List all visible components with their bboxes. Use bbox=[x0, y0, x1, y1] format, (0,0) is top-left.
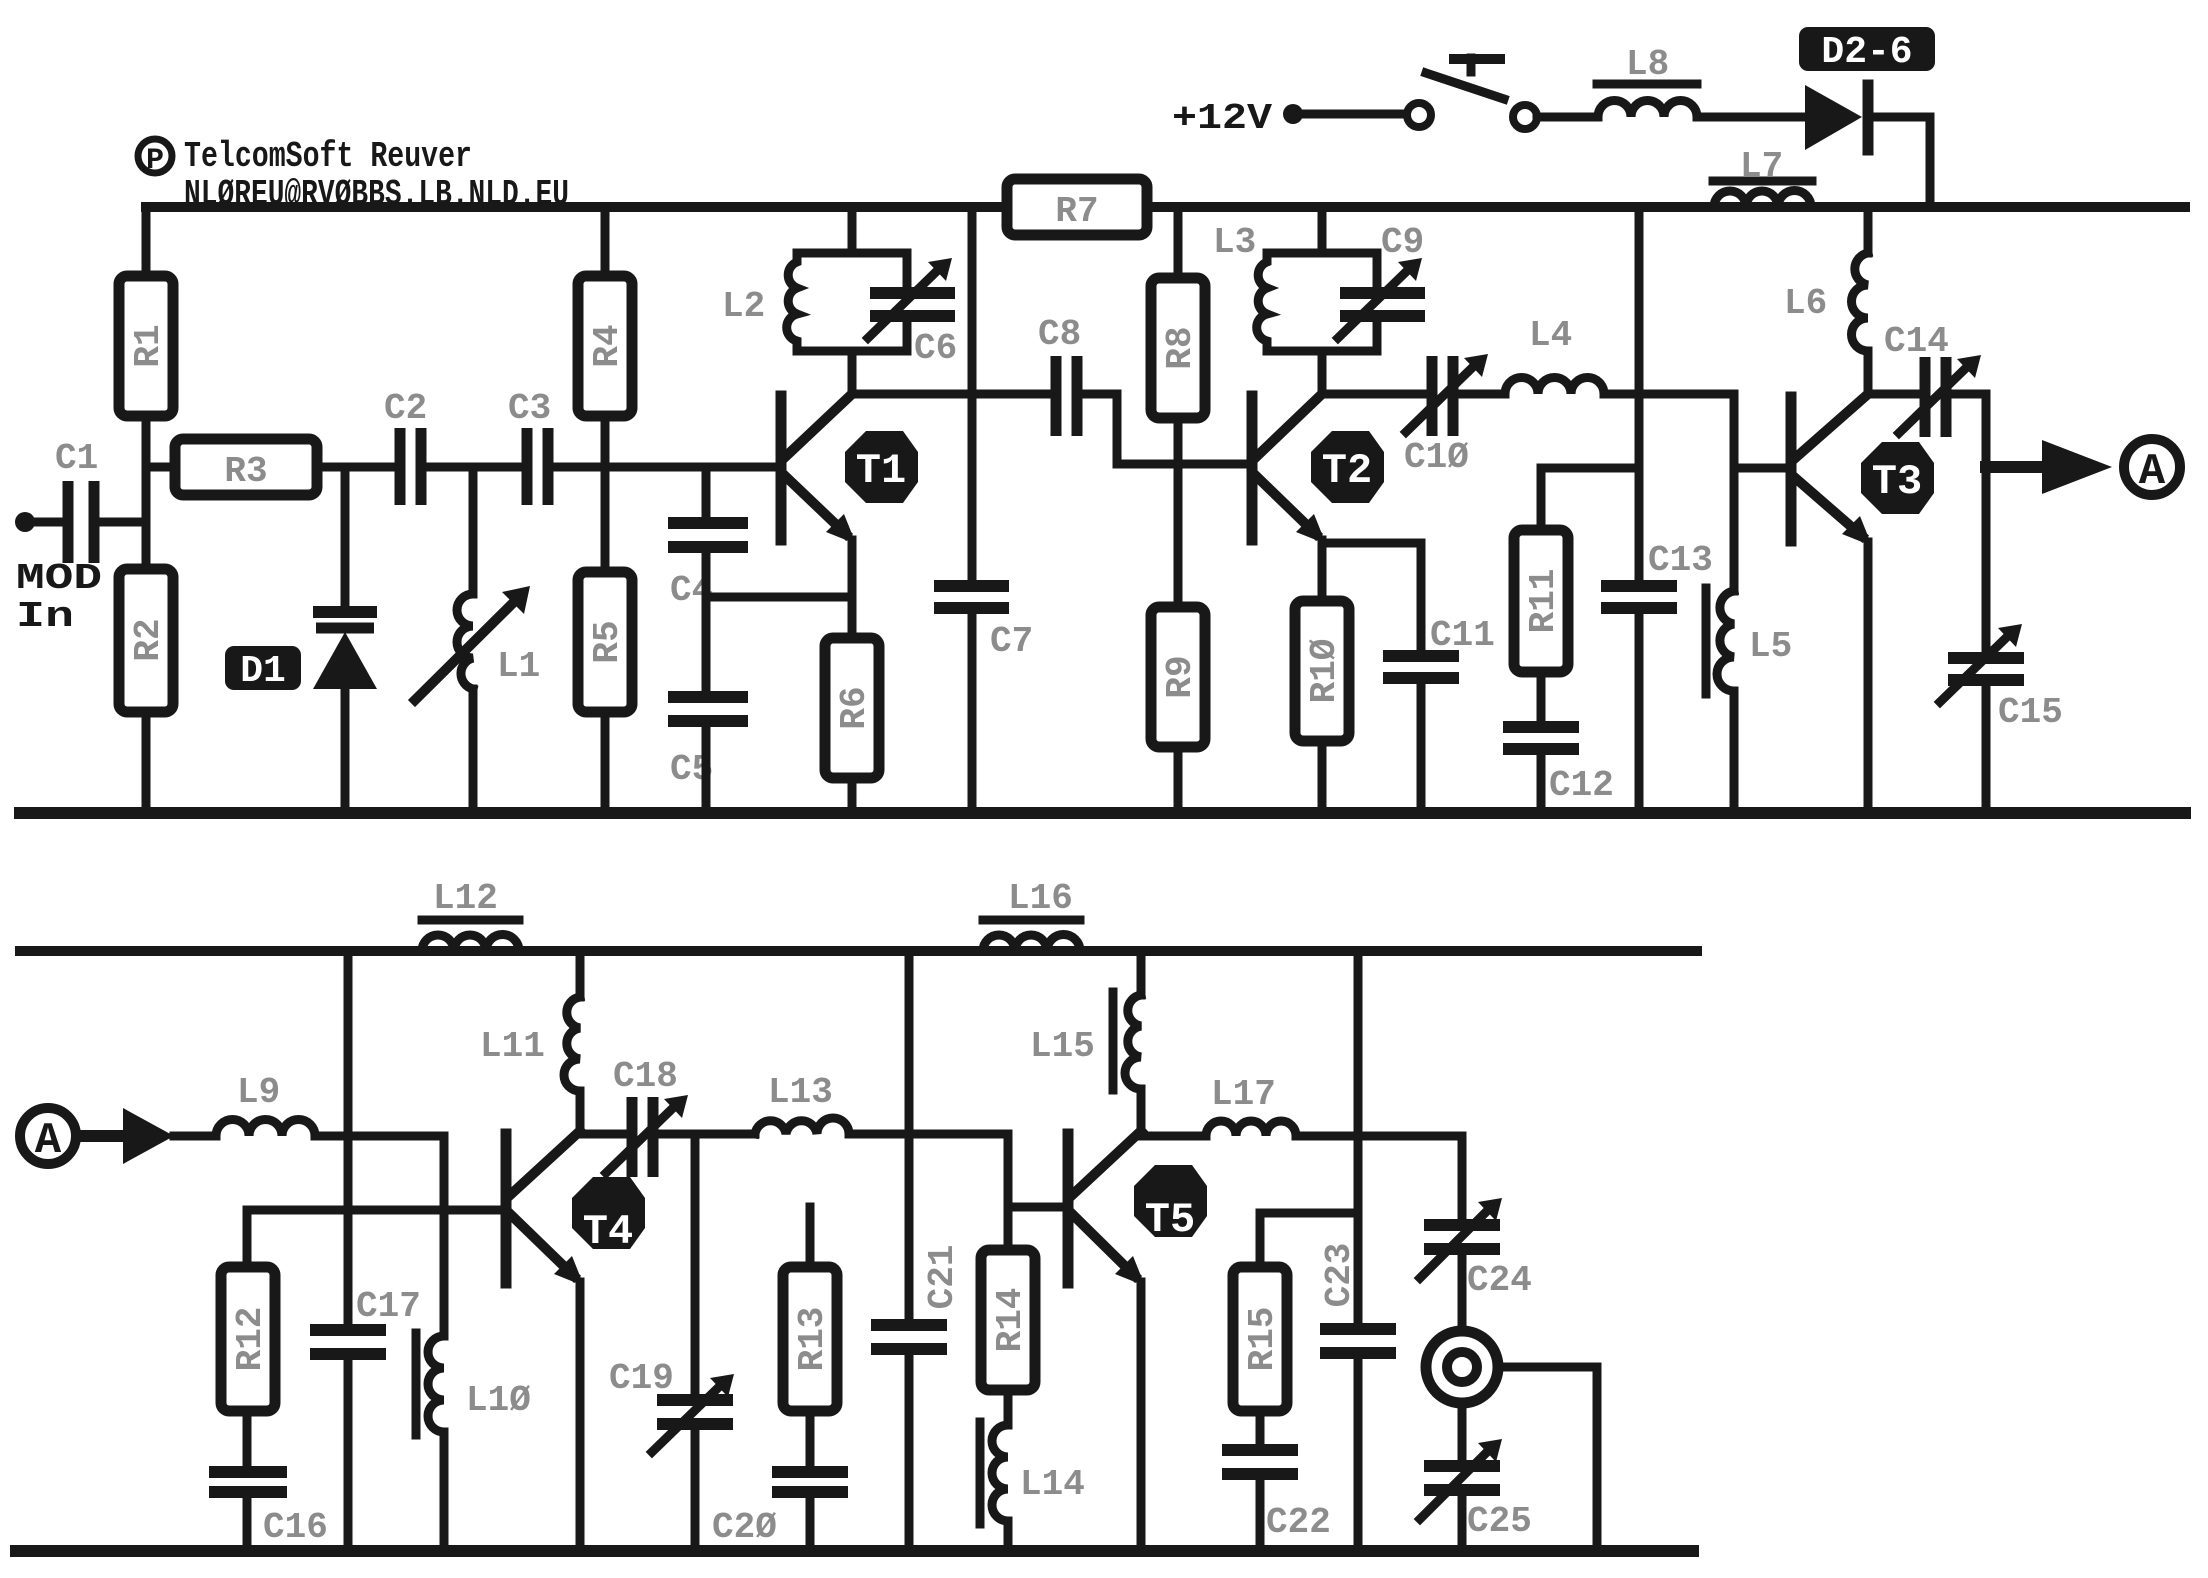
node MOD In terminal bbox=[15, 512, 60, 532]
svg-text:C3: C3 bbox=[508, 388, 551, 429]
resistor R1 bbox=[119, 276, 173, 416]
capacitor C5 bbox=[668, 697, 748, 790]
svg-text:L12: L12 bbox=[433, 878, 498, 919]
wire C13 to ground bbox=[1635, 614, 1644, 813]
capacitor C18 variable bbox=[606, 1056, 688, 1177]
wire C14 to output column bbox=[1952, 394, 1986, 652]
svg-text:L5: L5 bbox=[1749, 626, 1792, 667]
svg-text:R4: R4 bbox=[587, 324, 628, 367]
svg-text:L4: L4 bbox=[1529, 315, 1572, 356]
wire R14 to L14 bbox=[1004, 1390, 1013, 1425]
wire C1 to R2 column bbox=[100, 518, 146, 527]
inductor L10 bbox=[416, 1210, 531, 1551]
wire +12V supply rail left segment bbox=[146, 202, 1007, 212]
svg-text:C16: C16 bbox=[263, 1507, 328, 1548]
wire connector to C25 bbox=[1458, 1403, 1467, 1460]
wire T1 collector row bbox=[852, 390, 1051, 399]
wire L17 to C24 corner bbox=[1296, 1136, 1462, 1219]
inductor L17 bbox=[1206, 1074, 1296, 1136]
svg-text:D1: D1 bbox=[240, 650, 286, 693]
wire C25 to ground bbox=[1458, 1496, 1467, 1551]
wire C2 to C3 bbox=[427, 463, 522, 472]
wire C11 to ground bbox=[1417, 684, 1426, 813]
svg-text:R13: R13 bbox=[792, 1307, 833, 1372]
svg-text:D2-6: D2-6 bbox=[1821, 31, 1912, 74]
wire T5 emitter to ground bbox=[1137, 1282, 1146, 1551]
wire C24 to antenna connector bbox=[1458, 1255, 1467, 1330]
diode D1 varactor bbox=[313, 612, 377, 813]
capacitor C9 variable bbox=[1338, 222, 1425, 338]
capacitor C19 variable bbox=[609, 1358, 734, 1452]
wire R4 to R5 bbox=[601, 416, 610, 572]
svg-text:C22: C22 bbox=[1266, 1502, 1331, 1543]
capacitor C12 bbox=[1503, 727, 1614, 806]
transistor T1 bbox=[781, 394, 918, 544]
transistor T4 bbox=[506, 1131, 645, 1286]
supply rail bottom section bbox=[20, 946, 1697, 956]
inductor L6 bbox=[1784, 207, 1868, 394]
capacitor C21 bbox=[871, 1245, 963, 1349]
wire R6 to ground bbox=[848, 778, 857, 813]
wire C5 to ground bbox=[702, 727, 711, 813]
capacitor C4 bbox=[668, 523, 748, 611]
capacitor C1 bbox=[55, 438, 98, 563]
wire L9 to T4 branch corner bbox=[315, 1136, 444, 1210]
capacitor C25 variable bbox=[1420, 1439, 1532, 1542]
svg-text:C17: C17 bbox=[356, 1286, 421, 1327]
wire C22 to ground bbox=[1256, 1480, 1265, 1551]
svg-text:C23: C23 bbox=[1319, 1243, 1360, 1308]
svg-text:C2Ø: C2Ø bbox=[712, 1507, 777, 1548]
wire A to arrow bbox=[77, 1130, 123, 1142]
svg-text:R3: R3 bbox=[224, 451, 267, 492]
resistor R6 bbox=[825, 638, 879, 778]
wire C15 to ground bbox=[1982, 686, 1991, 813]
svg-text:L2: L2 bbox=[722, 286, 765, 327]
node +12V terminal bbox=[1283, 104, 1407, 124]
wire C21 column from rail bbox=[905, 951, 914, 1319]
inductor L13 bbox=[755, 1072, 849, 1134]
svg-text:+12V: +12V bbox=[1172, 98, 1272, 139]
resistor R7 bbox=[1007, 179, 1147, 235]
svg-text:L1: L1 bbox=[497, 646, 540, 687]
inductor L12 bbox=[422, 878, 519, 951]
wire C23 column from rail bbox=[1354, 951, 1363, 1323]
inductor L8 bbox=[1597, 44, 1697, 117]
header text TelcomSoft Reuver bbox=[184, 136, 569, 215]
wire C18 to L13 bbox=[659, 1130, 755, 1139]
wire tank L3 bottom tap bbox=[1318, 351, 1327, 394]
wire T3 collector row bbox=[1868, 390, 1920, 399]
inductor L9 bbox=[216, 1072, 315, 1136]
wire R11 top row bbox=[1541, 464, 1639, 473]
svg-text:A: A bbox=[35, 1116, 62, 1166]
wire C7 column top bbox=[968, 207, 977, 580]
transistor T5 bbox=[1068, 1131, 1207, 1286]
label D2-6 bbox=[1799, 27, 1935, 74]
wire C8 to T2 base bbox=[1083, 394, 1246, 464]
wire tank L2 top tap bbox=[848, 207, 857, 253]
wire C10 to L4 bbox=[1459, 390, 1505, 399]
wire tank L3 top tap bbox=[1318, 207, 1327, 253]
svg-text:C25: C25 bbox=[1467, 1501, 1532, 1542]
capacitor C16 bbox=[209, 1472, 328, 1548]
svg-text:T5: T5 bbox=[1145, 1196, 1195, 1244]
switch S1 pushbutton bbox=[1407, 58, 1537, 129]
svg-text:L9: L9 bbox=[237, 1072, 280, 1113]
svg-text:T1: T1 bbox=[856, 447, 906, 495]
svg-text:L8: L8 bbox=[1626, 44, 1669, 85]
svg-text:R1Ø: R1Ø bbox=[1304, 639, 1345, 704]
svg-text:T3: T3 bbox=[1872, 458, 1922, 506]
svg-text:C12: C12 bbox=[1549, 765, 1614, 806]
wire R15 top row bbox=[1260, 1209, 1358, 1218]
wire R1 bottom to R2 bbox=[142, 416, 151, 569]
svg-text:T4: T4 bbox=[583, 1208, 633, 1256]
wire tank L2 bottom tap bbox=[848, 351, 857, 394]
resistor R5 bbox=[578, 572, 632, 712]
capacitor C17 bbox=[310, 1286, 421, 1354]
wire C3 to T1 base bbox=[554, 463, 777, 472]
svg-text:C1: C1 bbox=[55, 438, 98, 479]
inductor L16 bbox=[983, 878, 1080, 951]
svg-text:C6: C6 bbox=[914, 328, 957, 369]
svg-text:L16: L16 bbox=[1008, 878, 1073, 919]
ground rail bottom section bbox=[16, 1545, 1693, 1557]
svg-text:R1: R1 bbox=[128, 324, 169, 367]
wire R1 top bbox=[142, 207, 151, 276]
svg-text:C19: C19 bbox=[609, 1358, 674, 1399]
resistor R15 bbox=[1233, 1213, 1287, 1411]
svg-text:TelcomSoft Reuver: TelcomSoft Reuver bbox=[184, 136, 472, 177]
inductor L4 bbox=[1505, 315, 1604, 394]
wire R5 to ground bbox=[601, 712, 610, 813]
wire C19 to ground bbox=[691, 1430, 700, 1551]
wire T5 base row bbox=[1008, 1203, 1065, 1212]
resistor R2 bbox=[119, 569, 173, 712]
svg-text:R6: R6 bbox=[834, 686, 875, 729]
wire L4 to T3 base corner bbox=[1604, 394, 1788, 468]
resistor R12 bbox=[221, 1210, 275, 1411]
node input arrow bbox=[123, 1108, 174, 1164]
capacitor C20 bbox=[712, 1472, 848, 1548]
svg-text:L1Ø: L1Ø bbox=[466, 1380, 531, 1421]
capacitor C22 bbox=[1222, 1450, 1331, 1543]
svg-text:L11: L11 bbox=[480, 1026, 545, 1067]
svg-text:L7: L7 bbox=[1740, 146, 1783, 187]
resistor R8 bbox=[1151, 278, 1205, 418]
wire C19 column bbox=[691, 1134, 700, 1394]
svg-text:C14: C14 bbox=[1884, 321, 1949, 362]
svg-text:C13: C13 bbox=[1648, 540, 1713, 581]
capacitor C6 variable bbox=[868, 258, 957, 369]
wire R2 to ground bbox=[142, 712, 151, 813]
svg-text:L17: L17 bbox=[1211, 1074, 1276, 1115]
wire center column rail to L4 node bbox=[1635, 207, 1644, 580]
label D1 bbox=[225, 646, 301, 693]
svg-text:C18: C18 bbox=[613, 1056, 678, 1097]
node A bottom section bbox=[20, 1108, 76, 1166]
capacitor C24 variable bbox=[1420, 1198, 1532, 1301]
capacitor C7 bbox=[934, 586, 1033, 662]
wire R9 to ground bbox=[1174, 747, 1183, 813]
inductor L11 bbox=[480, 951, 580, 1134]
svg-text:R11: R11 bbox=[1523, 569, 1564, 634]
wire C4C5 node to emitter column bbox=[706, 593, 852, 602]
wire R13 to C20 bbox=[806, 1411, 815, 1466]
svg-text:L14: L14 bbox=[1020, 1464, 1085, 1505]
svg-text:R15: R15 bbox=[1242, 1307, 1283, 1372]
wire L8 to D2-6 bbox=[1697, 113, 1805, 122]
wire T2 emitter to R10 bbox=[1318, 540, 1327, 601]
wire L13 to T5 branch corner bbox=[849, 1134, 1008, 1250]
wire C4 to C5 bbox=[702, 553, 711, 691]
wire D1 branch down bbox=[341, 467, 350, 606]
inductor L5 bbox=[1706, 468, 1792, 813]
svg-text:L3: L3 bbox=[1213, 222, 1256, 263]
capacitor C23 bbox=[1319, 1243, 1396, 1353]
wire +12V supply rail right segment bbox=[1147, 202, 2185, 212]
wire R8 top bbox=[1174, 207, 1183, 278]
wire T3 emitter to ground bbox=[1864, 542, 1873, 813]
wire T4 emitter to ground bbox=[576, 1282, 585, 1551]
diode D2-6 bbox=[1805, 85, 1868, 150]
svg-text:R2: R2 bbox=[128, 618, 169, 661]
resistor R9 bbox=[1151, 607, 1205, 747]
transistor T3 bbox=[1791, 394, 1934, 546]
capacitor C2 bbox=[384, 388, 427, 505]
resistor R4 bbox=[578, 276, 632, 416]
wire C4 branch top bbox=[702, 467, 711, 517]
wire arrow to L9 bbox=[174, 1132, 216, 1141]
wire switch to L8 bbox=[1537, 113, 1598, 122]
svg-text:R8: R8 bbox=[1160, 326, 1201, 369]
inductor L1 variable bbox=[415, 467, 540, 813]
svg-text:C15: C15 bbox=[1998, 692, 2063, 733]
svg-text:C1Ø: C1Ø bbox=[1404, 437, 1469, 478]
wire R4 top bbox=[601, 207, 610, 276]
wire C7 to ground bbox=[968, 614, 977, 813]
capacitor C13 bbox=[1601, 540, 1713, 608]
svg-text:C2: C2 bbox=[384, 388, 427, 429]
wire C16 to ground bbox=[243, 1498, 252, 1551]
wire R3 to C2 bbox=[317, 463, 395, 472]
wire T4 collector to C18 bbox=[580, 1130, 627, 1139]
wire C21 to ground bbox=[905, 1355, 914, 1551]
svg-text:C11: C11 bbox=[1430, 615, 1495, 656]
svg-text:L15: L15 bbox=[1030, 1026, 1095, 1067]
wire R3 left bbox=[146, 463, 175, 472]
svg-text:L6: L6 bbox=[1784, 283, 1827, 324]
wire R15 to C22 bbox=[1256, 1411, 1265, 1444]
wire R10 to ground bbox=[1318, 741, 1327, 813]
inductor L15 bbox=[1030, 951, 1141, 1131]
node output arrow to A bbox=[2042, 440, 2112, 494]
resistor R13 bbox=[783, 1207, 837, 1411]
svg-text:C24: C24 bbox=[1467, 1260, 1532, 1301]
wire T2 collector row bbox=[1322, 390, 1427, 399]
inductor L7 bbox=[1713, 146, 1812, 207]
wire T1 emitter to R6 bbox=[848, 540, 857, 638]
inductor L3 tank loop bbox=[1213, 222, 1377, 351]
inductor L2 tank loop bbox=[722, 253, 907, 351]
svg-text:R5: R5 bbox=[587, 620, 628, 663]
transistor T2 bbox=[1252, 394, 1384, 544]
node A top section bbox=[2124, 439, 2180, 497]
capacitor C8 bbox=[1038, 314, 1081, 436]
svg-text:T2: T2 bbox=[1322, 447, 1372, 495]
wire C17 column from rail bbox=[344, 951, 353, 1324]
svg-text:C7: C7 bbox=[990, 621, 1033, 662]
capacitor C15 variable bbox=[1940, 624, 2063, 733]
ground rail top section bbox=[20, 807, 2185, 819]
svg-text:R12: R12 bbox=[230, 1307, 271, 1372]
wire C12 to ground bbox=[1537, 755, 1546, 813]
inductor L14 bbox=[980, 1422, 1085, 1551]
svg-text:R7: R7 bbox=[1055, 191, 1098, 232]
wire C17 to ground bbox=[344, 1360, 353, 1551]
capacitor C11 bbox=[1383, 615, 1495, 678]
capacitor C3 bbox=[508, 388, 551, 505]
svg-text:C9: C9 bbox=[1381, 222, 1424, 263]
capacitor C14 variable bbox=[1884, 321, 1981, 437]
svg-text:A: A bbox=[2139, 447, 2166, 497]
text MOD In bbox=[16, 558, 102, 637]
wire R11 to C12 bbox=[1537, 672, 1546, 721]
svg-text:C8: C8 bbox=[1038, 314, 1081, 355]
wire T4 base row bbox=[247, 1206, 503, 1215]
svg-text:P: P bbox=[146, 144, 164, 178]
resistor R10 bbox=[1295, 601, 1349, 741]
svg-text:MOD: MOD bbox=[16, 558, 102, 599]
wire D2-6 to rail bbox=[1874, 117, 1930, 207]
svg-text:In: In bbox=[16, 596, 74, 637]
wire C20 to ground bbox=[806, 1498, 815, 1551]
svg-text:C21: C21 bbox=[922, 1245, 963, 1310]
resistor R11 bbox=[1514, 468, 1568, 672]
resistor R14 bbox=[981, 1250, 1035, 1390]
resistor R3 bbox=[175, 439, 317, 495]
wire antenna connector return bbox=[1498, 1367, 1597, 1551]
wire T2 emitter to C11 bbox=[1322, 543, 1421, 650]
svg-text:R14: R14 bbox=[990, 1288, 1031, 1353]
svg-text:L13: L13 bbox=[768, 1072, 833, 1113]
wire R12 to C16 bbox=[243, 1411, 252, 1466]
svg-text:R9: R9 bbox=[1160, 655, 1201, 698]
wire output arrow tail bbox=[1986, 461, 2042, 473]
capacitor C10 variable bbox=[1404, 354, 1488, 478]
wire T5 collector to L17 bbox=[1141, 1132, 1206, 1141]
wire C23 to ground bbox=[1354, 1359, 1363, 1551]
wire R8 to R9 bbox=[1174, 418, 1183, 607]
antenna connector J1 bbox=[1426, 1331, 1498, 1403]
copyright logo P bbox=[138, 139, 172, 178]
